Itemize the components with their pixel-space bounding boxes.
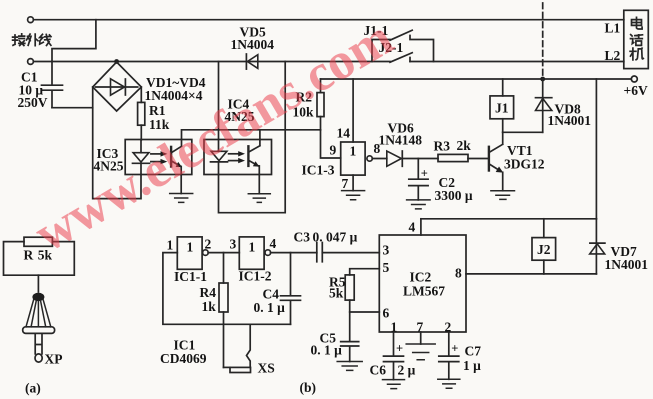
relay coil J2 bbox=[532, 219, 556, 274]
diode VD7 bbox=[590, 219, 605, 274]
label VD6 1N4148 bbox=[379, 121, 423, 148]
label L2 bbox=[605, 48, 621, 63]
ground IC4 emitter bbox=[248, 175, 270, 203]
label IC1-3 bbox=[302, 163, 335, 178]
capacitor C1 bbox=[42, 62, 63, 108]
svg-text:4: 4 bbox=[409, 220, 416, 235]
label XP bbox=[45, 352, 63, 367]
IC4 coupling arrows bbox=[229, 151, 245, 163]
capacitor C3 bbox=[317, 243, 323, 262]
svg-text:7: 7 bbox=[342, 176, 349, 191]
wire C1 bottom to bridge left vertex line bbox=[52, 107, 93, 109]
label 7 bbox=[342, 176, 349, 191]
svg-text:J1: J1 bbox=[495, 101, 509, 116]
label L1 bbox=[605, 21, 621, 36]
IC3 coupling arrows bbox=[151, 151, 167, 164]
remote unit box with resistor R 5k bbox=[4, 237, 75, 275]
label VT1 3DG12 bbox=[504, 143, 545, 172]
capacitor C7 electrolytic bbox=[439, 342, 459, 380]
svg-text:C7: C7 bbox=[465, 344, 482, 359]
label IC3 4N25 bbox=[94, 146, 124, 174]
label R1 11k bbox=[149, 103, 170, 132]
ground IC3 emitter bbox=[170, 175, 193, 203]
label pin1 bbox=[391, 320, 398, 335]
svg-text:L1: L1 bbox=[605, 21, 621, 36]
svg-text:8: 8 bbox=[455, 266, 462, 281]
label pin2 bbox=[205, 237, 212, 252]
svg-text:250V: 250V bbox=[18, 95, 48, 110]
label pin2 bbox=[445, 320, 452, 335]
wire IC4 collector to bus bbox=[259, 130, 261, 140]
svg-text:0. 047 μ: 0. 047 μ bbox=[313, 230, 358, 245]
label pin3 bbox=[230, 237, 237, 252]
diode VD5 on L2 bbox=[246, 54, 257, 69]
svg-text:C6: C6 bbox=[370, 363, 387, 378]
wire input loop to IC1-1 bbox=[163, 253, 291, 325]
label 电话机 (telephone) glyphs bbox=[632, 17, 643, 29]
svg-text:1: 1 bbox=[249, 240, 256, 255]
transistor VT1 bbox=[489, 132, 503, 190]
wire IC1-2 out to C3 bbox=[271, 252, 317, 254]
label IC1-1 bbox=[174, 269, 207, 284]
label 9 bbox=[330, 143, 337, 158]
svg-text:1N4004×4: 1N4004×4 bbox=[145, 88, 203, 103]
label C7 1u bbox=[463, 344, 481, 374]
IC3 LED bbox=[133, 140, 150, 175]
terminal lower bbox=[28, 59, 34, 65]
wire L2 rail (right of contact block) bbox=[410, 61, 624, 63]
bridge rectifier VD1-VD4 diamond bbox=[93, 62, 142, 111]
svg-text:(b): (b) bbox=[300, 380, 317, 395]
svg-text:1: 1 bbox=[350, 144, 357, 159]
label VD8 1N4001 bbox=[548, 102, 592, 129]
telephone set box bbox=[624, 10, 649, 68]
node junction on L2 at bridge top bbox=[114, 59, 119, 64]
label C2 3300u bbox=[435, 175, 473, 203]
wire IC3 collector up and collector bus to R2 bbox=[182, 130, 321, 140]
label VD1~VD4 1N4004x4 bbox=[145, 75, 206, 103]
svg-text:LM567: LM567 bbox=[403, 284, 445, 299]
IC4 LED bbox=[211, 151, 228, 174]
capacitor C2 electrolytic bbox=[409, 159, 428, 200]
svg-text:(a): (a) bbox=[25, 381, 41, 396]
svg-text:5: 5 bbox=[383, 260, 390, 275]
svg-text:XP: XP bbox=[45, 352, 63, 367]
svg-text:C3: C3 bbox=[294, 230, 311, 245]
svg-text:6: 6 bbox=[383, 306, 390, 321]
diode VD6 bbox=[387, 151, 403, 166]
wire L2 rail (left of contact block) bbox=[33, 61, 390, 63]
svg-text:3DG12: 3DG12 bbox=[504, 157, 545, 172]
svg-text:1N4001: 1N4001 bbox=[548, 113, 592, 128]
terminal +6V bbox=[631, 76, 637, 82]
+6V rail bbox=[321, 78, 632, 80]
svg-text:+6V: +6V bbox=[624, 83, 648, 98]
label C3 0.047u bbox=[294, 230, 358, 245]
resistor R5 bbox=[345, 275, 354, 342]
wire VD6 to R3 bbox=[403, 158, 438, 160]
svg-text:1: 1 bbox=[167, 238, 174, 253]
wire J1 bottom to VD8 bbox=[503, 131, 543, 133]
IC2 LM567 box bbox=[379, 235, 466, 332]
label pin5 bbox=[383, 260, 390, 275]
ground C2 bbox=[407, 200, 431, 209]
label C4 0.1u bbox=[254, 287, 286, 316]
label pin8 bbox=[455, 266, 462, 281]
label pin6 bbox=[383, 306, 390, 321]
label J2-1 bbox=[379, 40, 404, 55]
ground gate pin7 bbox=[342, 175, 365, 200]
svg-text:4: 4 bbox=[270, 236, 277, 251]
wire IC4 LED cathode return loop to L2 bbox=[219, 62, 286, 213]
label pin1 bbox=[167, 238, 174, 253]
wire pin1 stub to C6 bbox=[393, 332, 395, 356]
ground C7 bbox=[438, 379, 460, 388]
label IC1 CD4069 bbox=[160, 338, 207, 367]
wire L1 top rail bbox=[33, 19, 623, 21]
wire pin8 to VD6 bbox=[372, 158, 387, 160]
resistor R4 bbox=[219, 253, 228, 368]
svg-text:1 μ: 1 μ bbox=[463, 358, 481, 373]
gate IC1-1 output bubble bbox=[203, 250, 209, 256]
wire pin4 stub bbox=[420, 219, 422, 235]
wire IC3 LED cathode return to bridge left bbox=[93, 87, 141, 199]
label VD5 1N4004 bbox=[231, 25, 275, 53]
relay contact block J1-1 / J2-1 bbox=[372, 30, 434, 62]
label C5 0.1u bbox=[311, 331, 343, 358]
label 接外线 (connect outer line) - drawn glyphs bbox=[13, 34, 25, 46]
svg-text:1k: 1k bbox=[202, 299, 217, 314]
wire pin14 from +6V rail bbox=[352, 79, 354, 142]
terminal upper (outer-line binding post) bbox=[28, 17, 34, 23]
wire pin7 ground stub bbox=[420, 332, 422, 344]
label XS bbox=[258, 361, 275, 376]
wire +6V down right side bbox=[595, 79, 597, 219]
optocoupler IC4 box bbox=[204, 140, 272, 175]
wire IC4 LED anode from L2 bbox=[218, 62, 220, 152]
capacitor C5 bbox=[341, 342, 359, 362]
svg-text:L2: L2 bbox=[605, 48, 621, 63]
svg-text:3300 μ: 3300 μ bbox=[435, 188, 473, 203]
label +6V bbox=[624, 83, 648, 98]
svg-text:1N4148: 1N4148 bbox=[379, 133, 423, 148]
label (a) bbox=[25, 381, 41, 396]
resistor R2 bbox=[317, 79, 324, 130]
wire pin8 to VD7/J2 bbox=[466, 273, 596, 275]
svg-text:XS: XS bbox=[258, 361, 275, 376]
label R4 1k bbox=[200, 285, 217, 314]
node rail/VD8 junction bbox=[540, 77, 545, 82]
diode VD8 bbox=[536, 79, 552, 132]
svg-text:3: 3 bbox=[230, 237, 237, 252]
capacitor C6 electrolytic bbox=[384, 342, 404, 380]
svg-text:IC1-1: IC1-1 bbox=[174, 269, 207, 284]
svg-text:CD4069: CD4069 bbox=[160, 351, 207, 366]
svg-text:2: 2 bbox=[205, 237, 212, 252]
label IC4 4N25 bbox=[225, 97, 255, 125]
IC3 phototransistor bbox=[171, 140, 182, 175]
label IC2 LM567 bbox=[403, 270, 445, 299]
gate IC1-2 output bubble bbox=[265, 250, 271, 256]
svg-text:2 μ: 2 μ bbox=[398, 363, 416, 378]
capacitor C4 bbox=[281, 253, 301, 325]
svg-text:9: 9 bbox=[330, 143, 337, 158]
svg-text:1N4004: 1N4004 bbox=[231, 37, 275, 52]
wire pin6 to R5 bottom bbox=[350, 311, 380, 313]
label pin4 bbox=[270, 236, 277, 251]
svg-text:R3: R3 bbox=[434, 139, 451, 154]
wire pin2 stub to C7 bbox=[448, 332, 450, 356]
svg-text:5k: 5k bbox=[329, 286, 344, 301]
gate IC1-2 bbox=[239, 237, 264, 269]
label 8 bbox=[374, 141, 381, 156]
svg-text:R1: R1 bbox=[149, 103, 166, 118]
relay coil J1 bbox=[490, 79, 514, 132]
label R3 2k bbox=[434, 138, 472, 154]
svg-text:1N4001: 1N4001 bbox=[605, 257, 649, 272]
label C6 2u bbox=[370, 363, 416, 378]
watermark www.elecfans.com bbox=[25, 9, 402, 263]
svg-text:+: + bbox=[451, 342, 458, 356]
svg-text:IC1-3: IC1-3 bbox=[302, 163, 335, 178]
label VD7 1N4001 bbox=[605, 244, 649, 272]
wire C3 to pin3 bbox=[322, 252, 379, 254]
gate IC1-3 output bubble pin8 bbox=[367, 156, 372, 161]
wire bus down to gate pin 9 bbox=[321, 130, 341, 158]
label J1-1 bbox=[364, 23, 389, 38]
wire pin5 to R5 bbox=[350, 269, 380, 275]
plug XP bbox=[23, 275, 55, 362]
svg-text:IC1-2: IC1-2 bbox=[239, 269, 272, 284]
svg-text:+: + bbox=[421, 167, 428, 181]
socket XS bbox=[224, 324, 251, 372]
resistor R3 bbox=[438, 154, 489, 161]
label pin3 IC2 bbox=[383, 243, 390, 258]
ground C6 bbox=[383, 380, 405, 389]
svg-text:R4: R4 bbox=[200, 285, 217, 300]
svg-text:J2: J2 bbox=[537, 242, 551, 257]
label 14 bbox=[337, 126, 351, 141]
label pin7 bbox=[417, 320, 424, 335]
label R2 10k bbox=[293, 90, 315, 120]
wire pin4 feed bbox=[421, 218, 597, 220]
label pin4 bbox=[409, 220, 416, 235]
svg-text:2k: 2k bbox=[457, 138, 472, 153]
svg-text:0. 1 μ: 0. 1 μ bbox=[311, 343, 343, 358]
wire jog from L1 down to L2 bbox=[52, 20, 96, 62]
gate IC1-3 box bbox=[341, 142, 365, 175]
svg-text:14: 14 bbox=[337, 126, 351, 141]
svg-text:+: + bbox=[396, 342, 403, 356]
dashed separator line bbox=[542, 3, 544, 79]
IC4 phototransistor bbox=[248, 140, 260, 175]
label C1 10u 250V bbox=[18, 70, 48, 111]
label R5 5k bbox=[329, 275, 346, 301]
label (b) bbox=[300, 380, 317, 395]
svg-text:0. 1 μ: 0. 1 μ bbox=[254, 300, 286, 315]
gate IC1-1 bbox=[177, 237, 202, 269]
svg-text:1: 1 bbox=[187, 240, 194, 255]
ground C5 bbox=[337, 362, 362, 371]
label IC1-2 bbox=[239, 269, 272, 284]
ground VT1 emitter bbox=[491, 191, 515, 200]
optocoupler IC3 box bbox=[125, 140, 192, 175]
svg-text:3: 3 bbox=[383, 243, 390, 258]
ground pin7 large bbox=[406, 344, 435, 360]
wire IC1-1 out to IC1-2 in bbox=[208, 252, 239, 254]
resistor R1 bbox=[138, 87, 145, 140]
svg-text:IC2: IC2 bbox=[410, 270, 432, 285]
